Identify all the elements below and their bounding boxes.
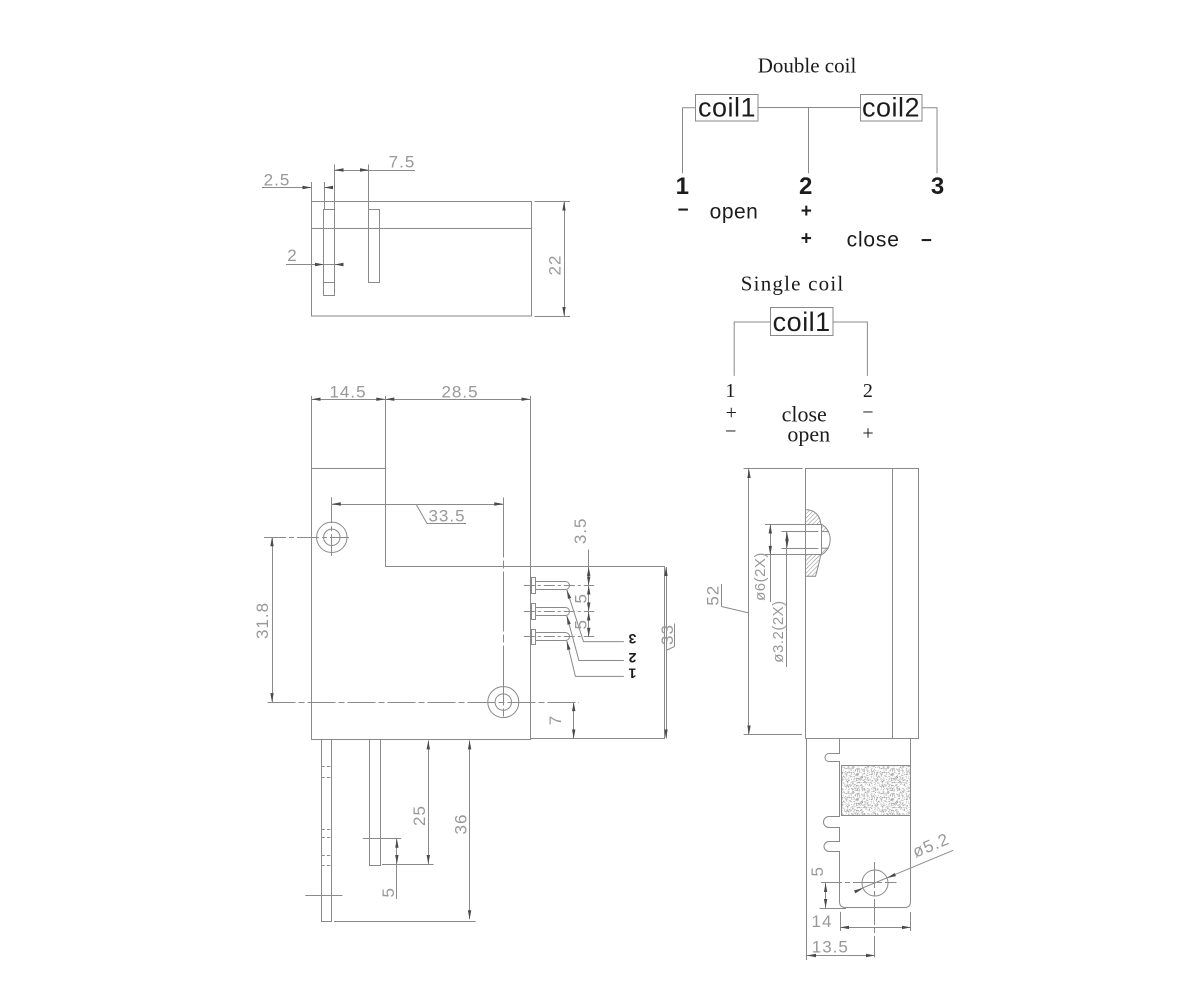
mounting hole H1 [317, 522, 347, 552]
svg-text:coil1: coil1 [773, 307, 831, 337]
svg-text:5: 5 [572, 594, 591, 603]
front view right plate [531, 567, 665, 739]
svg-text:+: + [862, 423, 873, 445]
svg-text:3: 3 [931, 173, 944, 200]
dim 31.8 [272, 537, 274, 702]
svg-text:ø6(2X): ø6(2X) [752, 552, 769, 601]
svg-text:ø3.2(2X): ø3.2(2X) [770, 600, 787, 662]
dim 36 [334, 921, 476, 923]
svg-text:28.5: 28.5 [441, 383, 478, 402]
coil1 box [696, 95, 759, 122]
dim 13.5 [806, 739, 808, 961]
top view tab 2 [369, 210, 380, 283]
mounting hole H2 [488, 687, 519, 718]
svg-text:22: 22 [546, 255, 565, 276]
dim 2.5 [311, 182, 313, 202]
single coil1 box [771, 308, 834, 336]
dim 5 side [825, 883, 827, 908]
dim 33.5 with leader [332, 504, 504, 506]
svg-text:5: 5 [379, 888, 398, 897]
svg-text:2: 2 [863, 380, 873, 402]
wire pin1 to coil1 [683, 108, 697, 173]
side view body inner line [892, 469, 894, 739]
wire coil1 to coil2 [758, 107, 860, 109]
svg-text:5: 5 [572, 620, 591, 629]
dim dia6 [765, 524, 806, 526]
svg-text:+: + [801, 201, 812, 222]
svg-text:1: 1 [628, 666, 636, 682]
svg-text:13.5: 13.5 [812, 938, 849, 957]
svg-text:33.5: 33.5 [428, 507, 465, 526]
dim 14 [840, 912, 842, 931]
svg-text:33: 33 [658, 624, 677, 645]
dim 33 with leader [666, 567, 668, 739]
bracket outline [824, 739, 911, 908]
svg-text:coil1: coil1 [698, 93, 756, 123]
svg-text:3: 3 [628, 631, 636, 647]
pin leader 2 [567, 616, 624, 661]
dim 52 [747, 469, 750, 478]
coil2 box [861, 95, 923, 122]
svg-text:1: 1 [676, 173, 689, 200]
svg-text:open: open [710, 201, 759, 224]
screw head section outline [806, 510, 821, 524]
wire junction to pin2 [808, 108, 810, 173]
svg-text:7: 7 [546, 716, 565, 725]
svg-text:−: − [862, 402, 873, 424]
svg-text:5: 5 [808, 867, 827, 876]
svg-text:coil2: coil2 [862, 93, 920, 123]
side view main body [806, 469, 919, 739]
bottom tab T1 [322, 740, 332, 922]
dim 5 bottom [396, 839, 398, 899]
bracket hole dia5.2 [862, 870, 888, 896]
dim 2 [286, 264, 343, 266]
svg-text:1: 1 [725, 380, 735, 402]
svg-text:−: − [921, 231, 932, 252]
pin leader 3 [567, 590, 624, 642]
svg-text:52: 52 [704, 585, 723, 606]
screw bore [806, 525, 822, 555]
svg-text:36: 36 [452, 814, 471, 835]
svg-text:2: 2 [628, 650, 636, 666]
screw head hatch top [806, 510, 829, 532]
svg-text:14: 14 [812, 912, 833, 931]
tab T2 tip line [363, 838, 401, 840]
wire coil2 to pin3 [922, 108, 937, 173]
dim 28.5 [385, 398, 394, 401]
svg-text:7.5: 7.5 [389, 153, 416, 172]
svg-text:2: 2 [287, 246, 296, 265]
side view left flange [748, 469, 750, 735]
svg-text:3.5: 3.5 [571, 517, 590, 544]
svg-text:2.5: 2.5 [264, 171, 291, 190]
bottom tab T2 [370, 740, 381, 866]
svg-text:14.5: 14.5 [329, 383, 366, 402]
svg-text:−: − [725, 421, 736, 443]
wire to pin2 [833, 322, 868, 376]
terminal pin P3 [532, 578, 536, 594]
svg-text:Double coil: Double coil [758, 54, 857, 78]
svg-text:−: − [678, 200, 689, 221]
damper pad [842, 766, 911, 816]
top view body outline [312, 202, 532, 317]
dim 14.5 [311, 396, 313, 468]
top view tab 1 [324, 210, 335, 296]
svg-text:25: 25 [410, 805, 429, 826]
terminal pin P2 [532, 604, 536, 620]
svg-text:Single coil: Single coil [741, 271, 845, 295]
svg-text:+: + [801, 229, 812, 250]
terminal pin P1 [532, 630, 536, 645]
dim 7.5 [334, 165, 336, 210]
wire to pin1 [734, 322, 770, 376]
screw head hatch bottom [806, 548, 829, 576]
front view main body outline [312, 469, 531, 740]
svg-text:2: 2 [799, 173, 812, 200]
svg-text:close: close [847, 229, 900, 252]
pin leader 1 [567, 641, 624, 677]
svg-text:31.8: 31.8 [253, 602, 272, 639]
dim 7 [573, 702, 575, 738]
top view inner line [312, 228, 532, 230]
dim 22 [535, 201, 571, 203]
dim 25 [382, 864, 434, 866]
dim dia3.2 [782, 531, 819, 533]
tab T1 centerline cross [305, 895, 342, 897]
dia5.2 leader [856, 850, 953, 890]
svg-text:open: open [787, 422, 830, 447]
dim 3.5 and 5 5 pin pitch [588, 550, 590, 637]
